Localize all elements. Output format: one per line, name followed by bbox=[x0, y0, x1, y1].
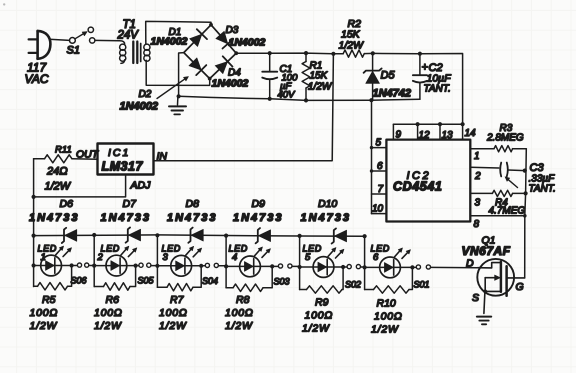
wire plug to S1 bbox=[49, 39, 69, 40]
node ground junction bbox=[177, 94, 181, 98]
svg-text:R7: R7 bbox=[170, 294, 185, 306]
wire LED3 anode row bbox=[157, 265, 205, 267]
pin stub 9 bbox=[392, 124, 394, 139]
wire left rail bbox=[33, 159, 35, 287]
svg-text:1/2W: 1/2W bbox=[371, 324, 399, 336]
node LED2 cathode / R leg bbox=[134, 264, 138, 268]
svg-text:3: 3 bbox=[163, 252, 169, 263]
svg-text:D: D bbox=[466, 258, 474, 270]
svg-text:ADJ: ADJ bbox=[130, 180, 152, 192]
switch S04 bbox=[205, 263, 209, 267]
node C1 top bbox=[268, 51, 272, 55]
node pin 14 bus bbox=[461, 122, 465, 126]
svg-text:G: G bbox=[516, 281, 524, 293]
AC plug P1 bbox=[29, 31, 51, 59]
svg-text:2.8MEG: 2.8MEG bbox=[486, 133, 524, 144]
svg-text:LM317: LM317 bbox=[102, 160, 144, 174]
svg-text:5: 5 bbox=[376, 138, 382, 149]
switch S03 bbox=[278, 264, 282, 268]
wire T1 secondary bottom to bridge AC node bbox=[146, 60, 210, 85]
svg-text:1: 1 bbox=[41, 252, 46, 263]
svg-text:IC1: IC1 bbox=[108, 147, 130, 159]
diode D4 (bridge lower-right) bbox=[215, 62, 228, 74]
pin stub 7 bbox=[372, 193, 387, 195]
LED 4 bbox=[240, 256, 261, 277]
wire cell boundary node 3 bbox=[225, 236, 227, 288]
svg-text:D10: D10 bbox=[318, 198, 337, 210]
svg-text:1/2W: 1/2W bbox=[339, 40, 365, 52]
svg-text:4: 4 bbox=[232, 252, 237, 263]
pin stub 3 bbox=[470, 192, 492, 194]
LED 4 emission arrows bbox=[255, 250, 260, 256]
svg-text:VAC: VAC bbox=[25, 72, 49, 86]
svg-text:C3: C3 bbox=[530, 162, 545, 174]
svg-text:1N4733: 1N4733 bbox=[29, 212, 80, 224]
node bridge right vertex bbox=[234, 51, 238, 55]
switch S02 bbox=[347, 265, 351, 269]
node bridge top vertex bbox=[209, 23, 213, 27]
svg-text:100Ω: 100Ω bbox=[225, 307, 254, 319]
node R1 top bbox=[304, 51, 308, 55]
wire bridge minus to ground node bbox=[179, 53, 184, 97]
svg-text:R6: R6 bbox=[106, 294, 120, 306]
resistor R6 bbox=[94, 286, 103, 288]
node bridge bottom vertex bbox=[208, 77, 212, 81]
ground symbol (Q1 source) bbox=[477, 316, 491, 318]
LED 1 emission arrows bbox=[56, 249, 61, 255]
pin stub 2 bbox=[470, 166, 499, 169]
LED 2 bbox=[106, 255, 127, 276]
svg-text:D3: D3 bbox=[226, 25, 239, 36]
svg-text:D5: D5 bbox=[381, 70, 396, 82]
wire LED4 anode row bbox=[226, 265, 278, 267]
svg-text:LED: LED bbox=[101, 244, 120, 254]
wire LED1 switch to next cell bbox=[89, 265, 94, 267]
svg-text:CD4541: CD4541 bbox=[393, 180, 442, 194]
node LED1 cathode / R leg bbox=[70, 263, 74, 267]
svg-text:S04: S04 bbox=[202, 276, 218, 286]
wire LED5 switch to next cell bbox=[361, 266, 365, 268]
svg-text:1/2W: 1/2W bbox=[45, 181, 72, 193]
svg-text:3: 3 bbox=[475, 198, 481, 209]
node LED6 cathode / R leg bbox=[410, 265, 414, 269]
wire LED2 switch to next cell bbox=[151, 265, 157, 267]
svg-text:5: 5 bbox=[305, 252, 311, 263]
svg-text:7: 7 bbox=[378, 184, 384, 195]
node R2 right / D5 top bbox=[371, 51, 375, 55]
wire zener bus row bbox=[34, 235, 365, 236]
wire LED1 anode row bbox=[34, 265, 78, 267]
svg-text:R10: R10 bbox=[377, 298, 396, 310]
zener diode D10 bbox=[332, 228, 336, 243]
svg-text:D6: D6 bbox=[60, 198, 74, 210]
transformer T1 core bbox=[132, 42, 134, 64]
resistor R8 bbox=[226, 287, 233, 289]
svg-text:1N4002: 1N4002 bbox=[151, 36, 188, 48]
svg-text:1N4733: 1N4733 bbox=[233, 212, 284, 224]
wire IC2 left pins bus bbox=[371, 100, 373, 213]
capacitor C1 bbox=[269, 53, 271, 71]
svg-text:1N4002: 1N4002 bbox=[120, 101, 159, 113]
svg-text:R8: R8 bbox=[236, 294, 250, 306]
LED 3 bbox=[171, 255, 192, 276]
switch S1 bbox=[70, 38, 76, 44]
wire LED4 switch to next cell bbox=[292, 265, 300, 267]
svg-text:1/2W: 1/2W bbox=[308, 82, 333, 93]
svg-text:D7: D7 bbox=[123, 198, 138, 210]
svg-text:S02: S02 bbox=[345, 280, 361, 290]
resistor R4 bbox=[492, 190, 512, 196]
pin 8 wire to gate rail bbox=[470, 215, 525, 217]
resistor R10 bbox=[365, 289, 374, 291]
transformer T1 secondary winding bbox=[144, 41, 150, 62]
transistor Q1 VN67AF bbox=[477, 259, 514, 296]
resistor R2 bbox=[333, 53, 343, 55]
resistor R7 bbox=[157, 286, 167, 288]
zener diode D7 bbox=[126, 228, 130, 243]
svg-text:1N4002: 1N4002 bbox=[229, 37, 266, 49]
zener diode D5 bbox=[372, 53, 374, 71]
wire cell boundary node 5 bbox=[364, 236, 366, 289]
diode D3 (bridge upper-right) bbox=[216, 31, 228, 44]
svg-text:8: 8 bbox=[474, 219, 480, 230]
node ADJ to left rail bbox=[31, 195, 35, 199]
svg-text:1N4733: 1N4733 bbox=[167, 212, 218, 224]
wire IC1 OUT to R11 bbox=[72, 158, 98, 161]
LED 2 emission arrows bbox=[121, 249, 126, 255]
wire IC2 pins 9/12/13/14 bus bbox=[393, 123, 462, 125]
resistor R5 bbox=[34, 285, 38, 287]
resistor R3 bbox=[494, 146, 513, 152]
svg-text:40V: 40V bbox=[278, 90, 297, 101]
LED 5 bbox=[313, 257, 334, 278]
capacitor C2 bbox=[419, 54, 421, 75]
pin stub 1 bbox=[470, 148, 494, 150]
LED 6 emission arrows bbox=[395, 251, 400, 257]
LED 6 bbox=[380, 257, 401, 278]
pin stub 5 bbox=[372, 147, 387, 149]
svg-text:100Ω: 100Ω bbox=[305, 310, 334, 322]
pin stub 10 bbox=[372, 213, 387, 215]
node LED5 cathode / R leg bbox=[341, 265, 345, 269]
svg-text:S1: S1 bbox=[67, 45, 80, 57]
wire cell boundary node 1 bbox=[93, 235, 95, 287]
label arrow to C3 bbox=[508, 180, 517, 188]
svg-text:4.7MEG: 4.7MEG bbox=[489, 206, 526, 217]
svg-text:S03: S03 bbox=[274, 277, 290, 287]
wire T1 secondary top to bridge top rail bbox=[146, 21, 211, 41]
svg-text:1N4733: 1N4733 bbox=[301, 212, 352, 224]
LED 1 bbox=[41, 255, 62, 276]
diode D1 (bridge upper-left) bbox=[190, 34, 202, 46]
wire ground rail bbox=[179, 96, 420, 100]
bridge diamond wires bbox=[184, 25, 236, 79]
wire LED6 anode row bbox=[365, 266, 417, 268]
svg-text:1N4742: 1N4742 bbox=[373, 88, 412, 100]
svg-text:24V: 24V bbox=[117, 30, 140, 42]
wire cell boundary node 2 bbox=[156, 235, 158, 287]
svg-text:1/2W: 1/2W bbox=[302, 323, 330, 335]
wire raw DC down to IC1 IN bbox=[154, 54, 334, 161]
wire positive rail bbox=[236, 52, 333, 55]
svg-text:15K: 15K bbox=[310, 71, 329, 82]
paper speck bbox=[3, 3, 5, 5]
wire LED3 switch to next cell bbox=[219, 265, 227, 267]
node pin 12 bus bbox=[416, 122, 420, 126]
pin stub 6 bbox=[372, 170, 387, 172]
svg-text:10: 10 bbox=[372, 204, 384, 215]
node pin 13 bus bbox=[438, 122, 442, 126]
svg-text:14: 14 bbox=[465, 128, 477, 139]
svg-text:D9: D9 bbox=[252, 198, 266, 210]
svg-text:100Ω: 100Ω bbox=[159, 307, 188, 319]
svg-text:VN67AF: VN67AF bbox=[462, 244, 511, 258]
regulator IC1 LM317 body bbox=[98, 144, 154, 175]
node C3 right bbox=[523, 169, 527, 173]
svg-text:S05: S05 bbox=[138, 276, 155, 286]
diode D2 (bridge lower-left) bbox=[189, 58, 201, 70]
switch S06 bbox=[77, 263, 81, 267]
svg-text:R9: R9 bbox=[315, 297, 329, 309]
resistor R11 bbox=[45, 155, 73, 163]
svg-text:1: 1 bbox=[474, 151, 480, 162]
svg-text:1/2W: 1/2W bbox=[94, 320, 122, 332]
svg-text:S06: S06 bbox=[71, 276, 87, 286]
resistor R1 bbox=[305, 53, 307, 61]
node LED3 cathode / R leg bbox=[199, 264, 203, 268]
svg-text:R11: R11 bbox=[55, 145, 72, 156]
pin stub 14 bbox=[462, 124, 464, 139]
svg-text:100Ω: 100Ω bbox=[374, 311, 403, 323]
label arrow to D2 bbox=[157, 79, 185, 98]
wire S01 to Q1 drain bbox=[431, 266, 478, 268]
wire 12V rail bbox=[373, 53, 463, 124]
wire LED2 anode row bbox=[94, 265, 139, 267]
capacitor C3 bbox=[500, 163, 501, 177]
switch S05 bbox=[139, 263, 143, 267]
LED 3 emission arrows bbox=[186, 249, 191, 255]
ground symbol (bridge) bbox=[177, 96, 179, 105]
node raw DC / R2 left bbox=[331, 52, 335, 56]
svg-text:6: 6 bbox=[373, 252, 379, 263]
node C1 bottom bbox=[268, 97, 272, 101]
node LED4 cathode / R leg bbox=[270, 264, 274, 268]
zener diode D9 bbox=[256, 228, 260, 243]
node R4 right bbox=[524, 191, 528, 195]
zener diode D6 bbox=[62, 228, 66, 243]
LED 5 emission arrows bbox=[328, 251, 333, 257]
pin stub 12 bbox=[417, 124, 419, 139]
svg-text:2: 2 bbox=[97, 252, 104, 263]
svg-text:100Ω: 100Ω bbox=[30, 307, 59, 319]
svg-text:TANT.: TANT. bbox=[529, 184, 556, 195]
wire LED5 anode row bbox=[300, 266, 347, 268]
svg-text:D2: D2 bbox=[139, 89, 152, 100]
svg-text:2: 2 bbox=[474, 171, 481, 182]
op-amp timer IC2 CD4541 body bbox=[386, 140, 470, 222]
svg-text:1/2W: 1/2W bbox=[30, 320, 58, 332]
svg-text:1N4733: 1N4733 bbox=[101, 212, 152, 224]
wire S1 to T1 primary bbox=[95, 40, 125, 44]
node D5 bottom / ground rail bbox=[369, 98, 373, 102]
zener diode D8 bbox=[188, 228, 192, 243]
svg-text:R5: R5 bbox=[42, 294, 56, 306]
svg-text:1/2W: 1/2W bbox=[225, 320, 253, 332]
svg-text:TANT.: TANT. bbox=[424, 84, 451, 95]
svg-text:1/2W: 1/2W bbox=[159, 320, 187, 332]
pin stub 13 bbox=[439, 124, 441, 139]
wire right RC rail bbox=[525, 149, 527, 278]
node pin8 rail bbox=[523, 214, 527, 218]
wire cell boundary node 4 bbox=[299, 236, 301, 290]
svg-text:6: 6 bbox=[377, 161, 383, 172]
svg-text:S: S bbox=[472, 292, 479, 304]
wire IC1 ADJ bbox=[34, 175, 126, 197]
switch S01 bbox=[416, 265, 420, 269]
svg-text:24Ω: 24Ω bbox=[46, 166, 68, 178]
resistor R9 bbox=[300, 289, 307, 291]
node left rail LED row bbox=[31, 263, 35, 267]
svg-text:1N4002: 1N4002 bbox=[212, 78, 249, 90]
node row left rail bbox=[31, 234, 35, 238]
svg-text:D8: D8 bbox=[186, 198, 200, 210]
svg-text:100Ω: 100Ω bbox=[94, 307, 123, 319]
transformer T1 primary winding bbox=[120, 44, 126, 63]
node C2 top bbox=[418, 52, 422, 56]
svg-text:S01: S01 bbox=[414, 280, 430, 290]
node R1 bottom bbox=[304, 98, 308, 102]
svg-text:IN: IN bbox=[157, 151, 168, 163]
